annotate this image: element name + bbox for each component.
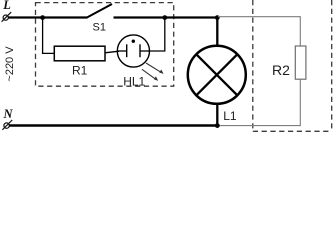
- wire: switch to lamp junction: [114, 16, 220, 18]
- switch S1 blade: [87, 4, 113, 18]
- dashed enclosure (switch/indicator unit): [36, 3, 174, 87]
- wire: thin branch to R2 (top): [218, 17, 300, 46]
- wire: R1 to HL1: [105, 51, 119, 53]
- terminal L (circle with slash): [2, 12, 12, 22]
- HL1 light-emission arrow 2: [142, 69, 158, 81]
- junction dot (branch to R1): [40, 15, 45, 20]
- wire: N rail: [9, 124, 218, 126]
- terminal N (circle with slash): [2, 120, 12, 130]
- HL1 light-emission arrow 1: [146, 63, 164, 74]
- svg-text:HL1: HL1: [123, 74, 145, 88]
- wire: R2 return to N rail: [218, 79, 300, 125]
- wire: junction down to R1: [43, 18, 55, 54]
- resistor R1: [54, 46, 105, 61]
- junction dot (lamp branch): [215, 15, 220, 20]
- svg-text:R2: R2: [272, 62, 290, 78]
- wire: L terminal to switch: [8, 16, 87, 18]
- svg-text:~220 V: ~220 V: [4, 46, 16, 82]
- lamp L1: [188, 46, 246, 104]
- svg-text:N: N: [3, 107, 14, 121]
- wire: HL1 up to top rail: [149, 18, 164, 52]
- wire: lamp bottom lead: [216, 104, 218, 127]
- resistor R2: [295, 46, 306, 79]
- junction dot (N rail / lamp): [215, 123, 220, 128]
- junction dot (HL1 branch): [162, 15, 167, 20]
- svg-text:L: L: [2, 0, 11, 12]
- neon indicator lamp HL1: [117, 35, 149, 67]
- svg-text:L1: L1: [223, 109, 237, 123]
- dashed enclosure (R2 unit): [253, 0, 332, 131]
- svg-text:S1: S1: [93, 22, 106, 34]
- svg-text:R1: R1: [72, 64, 88, 78]
- wire: lamp top lead: [216, 18, 218, 47]
